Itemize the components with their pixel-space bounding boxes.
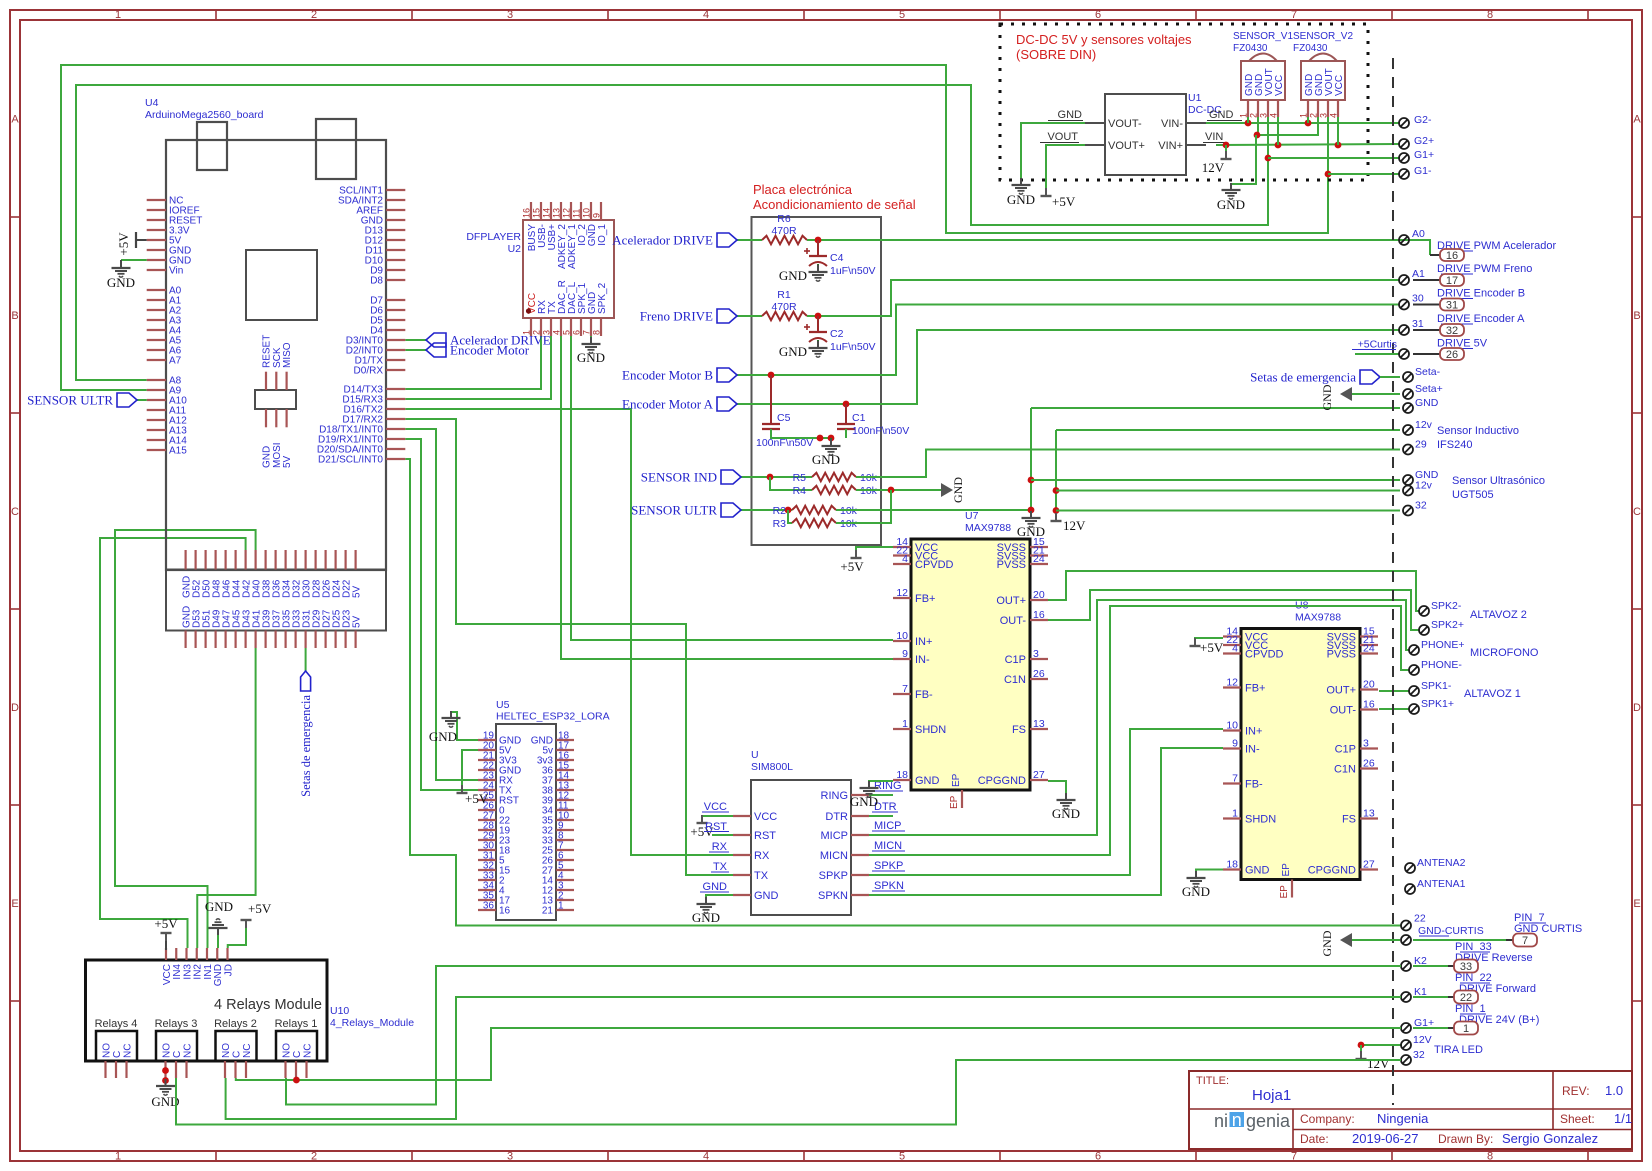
- svg-text:IN+: IN+: [915, 636, 932, 648]
- svg-text:5V: 5V: [282, 455, 293, 468]
- wire V1 VCC pin to VIN rail: [1277, 117, 1279, 145]
- svg-text:R3: R3: [773, 518, 787, 530]
- svg-text:3: 3: [507, 1151, 513, 1163]
- ground arrow at Seta+: [1340, 387, 1352, 401]
- svg-text:PVSS: PVSS: [1327, 649, 1356, 661]
- svg-text:VOUT: VOUT: [1047, 131, 1078, 143]
- wire MICN to pad PHONE-: [869, 606, 1409, 855]
- wire R1 to pad A1: [807, 280, 1400, 316]
- relay block Relays 1: [276, 1031, 317, 1061]
- wire GND rail to pad G2-: [1206, 122, 1400, 124]
- svg-text:Freno DRIVE: Freno DRIVE: [640, 309, 713, 324]
- +5V at U1 VOUT+: [1041, 195, 1052, 197]
- svg-text:RING: RING: [821, 790, 849, 802]
- svg-text:DFPLAYER: DFPLAYER: [466, 231, 521, 243]
- svg-text:U: U: [751, 749, 759, 761]
- svg-text:FB-: FB-: [1245, 779, 1263, 791]
- svg-text:+5V: +5V: [840, 559, 864, 574]
- wire U7 OUT+ to pad SPK2-: [1048, 571, 1419, 611]
- wire D16 to SIM800L RX: [405, 409, 733, 855]
- svg-text:Acondicionamiento de señal: Acondicionamiento de señal: [753, 197, 916, 212]
- svg-text:26: 26: [1033, 668, 1045, 680]
- svg-text:15: 15: [532, 208, 542, 218]
- ground at U5 pin 19: [451, 712, 478, 740]
- wire DAC_R to U7 IN-: [561, 336, 893, 659]
- svg-text:10: 10: [582, 208, 592, 218]
- ground at C5 C1: [830, 438, 832, 444]
- svg-text:1: 1: [1232, 808, 1238, 820]
- label Setas de emergencia right: [1360, 370, 1380, 384]
- pad G2+: [1399, 139, 1409, 149]
- ground at U4 GND pin: [121, 259, 147, 261]
- svg-text:16: 16: [522, 208, 532, 218]
- svg-text:11: 11: [572, 209, 582, 218]
- svg-text:CPGGND: CPGGND: [1308, 865, 1356, 877]
- wire D15 to U2 TX: [405, 336, 551, 399]
- pad SPK2-: [1419, 606, 1429, 616]
- svg-text:4 Relays Module: 4 Relays Module: [214, 997, 322, 1013]
- wire D14 to U2 RX: [405, 336, 541, 389]
- svg-text:SHDN: SHDN: [1245, 814, 1276, 826]
- svg-text:29: 29: [1415, 439, 1427, 451]
- pad PHONE-: [1409, 665, 1419, 675]
- svg-text:MICP: MICP: [821, 830, 849, 842]
- svg-text:12v: 12v: [1415, 419, 1433, 431]
- pad GND setas: [1403, 403, 1413, 413]
- svg-text:C1: C1: [852, 412, 866, 424]
- wire SPKN to U8 IN-: [869, 748, 1223, 895]
- svg-text:MICROFONO: MICROFONO: [1470, 647, 1539, 659]
- svg-text:D0/RX: D0/RX: [354, 366, 384, 377]
- svg-text:4: 4: [703, 9, 709, 21]
- svg-text:CPVDD: CPVDD: [915, 559, 954, 571]
- svg-text:SENSOR IND: SENSOR IND: [641, 470, 717, 485]
- junction R2 R3: [785, 507, 792, 514]
- svg-text:U4: U4: [145, 97, 159, 109]
- wire V1 VOUT tap to pad G1+: [1265, 155, 1272, 162]
- svg-text:SENSOR ULTR: SENSOR ULTR: [27, 393, 113, 408]
- svg-text:ANTENA1: ANTENA1: [1417, 878, 1466, 890]
- svg-text:A1: A1: [1412, 268, 1425, 280]
- svg-text:R1: R1: [777, 289, 791, 301]
- labels Acelerador DRIVE / Encoder Motor at D3 D2: [405, 339, 426, 341]
- ground at U8 GND: [1196, 870, 1223, 877]
- svg-text:TITLE:: TITLE:: [1196, 1075, 1229, 1087]
- svg-text:1uF\n50V: 1uF\n50V: [830, 341, 876, 353]
- svg-text:OUT+: OUT+: [996, 595, 1026, 607]
- svg-text:D21/SCL/INT0: D21/SCL/INT0: [318, 455, 383, 466]
- relay block Relays 2: [216, 1031, 257, 1061]
- svg-text:R6: R6: [777, 213, 791, 225]
- svg-text:Setas de emergencia: Setas de emergencia: [299, 695, 313, 797]
- svg-text:GND: GND: [1320, 930, 1334, 956]
- wire VIN rail to pad G2+: [1216, 144, 1400, 145]
- svg-text:+5V: +5V: [154, 916, 178, 931]
- svg-text:RX: RX: [754, 850, 770, 862]
- wire U8 OUT+ to pad SPK1-: [1379, 690, 1409, 692]
- svg-text:EP: EP: [1279, 885, 1290, 899]
- svg-text:3: 3: [1033, 648, 1039, 660]
- svg-text:24: 24: [1363, 643, 1375, 655]
- svg-text:EP: EP: [1281, 863, 1292, 877]
- svg-text:24: 24: [1033, 553, 1045, 565]
- svg-text:1/1: 1/1: [1614, 1111, 1632, 1126]
- svg-text:6: 6: [1095, 1151, 1101, 1163]
- EP pad of U7: [961, 790, 963, 808]
- wire Relays1 NO to pad K2: [286, 966, 1401, 1105]
- svg-text:3: 3: [1363, 738, 1369, 750]
- svg-text:14: 14: [542, 208, 552, 218]
- svg-text:MISO: MISO: [282, 342, 293, 368]
- svg-text:5V: 5V: [351, 585, 362, 598]
- svg-text:GND: GND: [1245, 865, 1270, 877]
- wire C5 C1 to ground: [771, 429, 831, 438]
- svg-text:4: 4: [902, 553, 908, 565]
- wire D19 to U5 TX: [405, 439, 478, 790]
- svg-text:7: 7: [1291, 9, 1297, 21]
- pad 32 sensor ultrasonico: [1403, 506, 1413, 516]
- svg-text:26: 26: [1363, 758, 1375, 770]
- label Encoder Motor B: [737, 374, 771, 376]
- wire V1 GND pin to GND rail: [1247, 117, 1249, 123]
- svg-text:Drawn By:: Drawn By:: [1438, 1132, 1493, 1146]
- svg-text:2: 2: [532, 330, 542, 335]
- svg-text:Sensor Ultrasónico: Sensor Ultrasónico: [1452, 475, 1545, 487]
- svg-text:GND: GND: [1007, 192, 1035, 207]
- svg-text:FB-: FB-: [915, 689, 933, 701]
- svg-text:VCC: VCC: [754, 811, 777, 823]
- wire MICP to pad PHONE+: [869, 600, 1409, 835]
- svg-text:10: 10: [1226, 720, 1238, 732]
- svg-text:GND: GND: [1217, 197, 1245, 212]
- svg-text:VCC: VCC: [1334, 75, 1345, 96]
- pad 29: [1403, 445, 1413, 455]
- wire R4 to ground arrow: [856, 489, 941, 491]
- svg-text:VOUT+: VOUT+: [1108, 140, 1145, 152]
- pad GND sensor ultrasonico: [1403, 475, 1413, 485]
- svg-text:G1+: G1+: [1414, 149, 1434, 161]
- svg-text:Relays 2: Relays 2: [214, 1018, 257, 1030]
- svg-text:Relays 1: Relays 1: [275, 1018, 318, 1030]
- svg-text:U10: U10: [330, 1005, 349, 1017]
- pad +5Curtis DRIVE 5V: [1355, 353, 1400, 355]
- svg-text:2: 2: [311, 9, 317, 21]
- svg-text:IN-: IN-: [915, 654, 930, 666]
- svg-text:IN-: IN-: [1245, 744, 1260, 756]
- svg-text:UGT505: UGT505: [1452, 489, 1494, 501]
- svg-text:SHDN: SHDN: [915, 724, 946, 736]
- ground at C2: [817, 340, 819, 348]
- svg-text:SPKP: SPKP: [874, 860, 903, 872]
- wire R6 to pad A0: [807, 239, 1400, 241]
- wire Relays2 C and Relays1 C to pad G1+: [236, 1028, 1401, 1080]
- svg-text:6: 6: [1095, 9, 1101, 21]
- svg-text:GND: GND: [577, 350, 605, 365]
- svg-text:C: C: [112, 1051, 123, 1058]
- svg-text:GND-CURTIS: GND-CURTIS: [1418, 925, 1484, 937]
- svg-text:5V: 5V: [351, 615, 362, 628]
- wire R5 to pad 29: [856, 450, 1400, 478]
- svg-text:31: 31: [1446, 300, 1458, 312]
- svg-text:GND: GND: [779, 268, 807, 283]
- svg-text:C1N: C1N: [1334, 764, 1356, 776]
- svg-text:17: 17: [1446, 275, 1458, 287]
- svg-text:Encoder Motor A: Encoder Motor A: [622, 397, 714, 412]
- dotted region DC-DC 5V y sensores voltajes: [1000, 24, 1368, 180]
- svg-text:GND: GND: [915, 775, 940, 787]
- svg-text:U7: U7: [965, 510, 979, 522]
- svg-text:GND: GND: [1209, 109, 1234, 121]
- svg-text:VCC: VCC: [1274, 75, 1285, 96]
- pad G2-: [1399, 118, 1409, 128]
- svg-text:Encoder Motor B: Encoder Motor B: [622, 368, 713, 383]
- svg-text:1: 1: [115, 9, 121, 21]
- svg-text:B: B: [11, 310, 18, 322]
- svg-text:U2: U2: [508, 243, 522, 255]
- junction R5 R4: [767, 474, 774, 481]
- wire R3 to R4: [836, 490, 891, 523]
- svg-text:SPK1-: SPK1-: [1421, 680, 1452, 692]
- svg-text:NC: NC: [242, 1044, 253, 1058]
- svg-text:36: 36: [483, 901, 495, 912]
- svg-text:ni: ni: [1214, 1111, 1228, 1131]
- svg-text:1: 1: [115, 1151, 121, 1163]
- svg-text:3: 3: [1319, 113, 1329, 118]
- svg-text:GND: GND: [754, 890, 779, 902]
- svg-text:+5V: +5V: [465, 791, 489, 806]
- svg-text:C: C: [1633, 506, 1641, 518]
- svg-text:+5V: +5V: [116, 232, 131, 256]
- svg-text:SPK_2: SPK_2: [597, 282, 608, 314]
- svg-text:4: 4: [703, 1151, 709, 1163]
- capacitor C4 1uF 50V: [817, 240, 819, 248]
- svg-text:GND: GND: [951, 477, 965, 503]
- svg-text:OUT+: OUT+: [1326, 685, 1356, 697]
- svg-text:SPKN: SPKN: [874, 880, 904, 892]
- ICSP header of U4: [255, 390, 296, 409]
- svg-text:C1N: C1N: [1004, 674, 1026, 686]
- capacitor C2 1uF 50V: [817, 316, 819, 324]
- wire vertical 12V column: [1055, 430, 1057, 520]
- ground at Relays 3 NO: [165, 1078, 167, 1084]
- svg-text:C2: C2: [830, 328, 844, 340]
- svg-text:Seta-: Seta-: [1415, 366, 1441, 378]
- wire Relays3 C to pad 32 TIRA LED: [176, 1060, 1401, 1125]
- svg-text:Placa electrónica: Placa electrónica: [753, 182, 853, 197]
- pad 12V TIRA LED: [1361, 1044, 1402, 1046]
- svg-text:GND: GND: [703, 881, 728, 893]
- svg-text:32: 32: [1415, 500, 1427, 512]
- wire V2 VCC pin to VIN rail: [1337, 117, 1339, 145]
- svg-text:C: C: [292, 1051, 303, 1058]
- svg-text:R5: R5: [793, 472, 807, 484]
- svg-text:8: 8: [1487, 9, 1493, 21]
- svg-text:NC: NC: [122, 1044, 133, 1058]
- svg-text:+5Curtis: +5Curtis: [1358, 339, 1397, 351]
- svg-text:CPVDD: CPVDD: [1245, 649, 1284, 661]
- svg-text:3: 3: [1259, 113, 1269, 118]
- ground at U1 VOUT-: [1020, 178, 1022, 185]
- svg-text:20: 20: [1363, 679, 1375, 691]
- ground at U SIM800L GND: [706, 895, 733, 903]
- svg-text:4: 4: [552, 330, 562, 335]
- wire to pad 12v sensor ultrasonico: [1056, 490, 1400, 492]
- svg-text:K2: K2: [1414, 955, 1427, 967]
- junction at R6 C4: [815, 237, 822, 244]
- svg-text:IN+: IN+: [1245, 726, 1262, 738]
- svg-text:FZ0430: FZ0430: [1233, 43, 1268, 54]
- wire D42 to relay IN3: [100, 538, 246, 948]
- svg-text:8: 8: [1487, 1151, 1493, 1163]
- relay block Relays 4: [96, 1031, 137, 1061]
- junction at C1: [843, 401, 850, 408]
- pad 32 TIRA LED: [1401, 1055, 1411, 1065]
- net label RING: [869, 794, 893, 796]
- svg-text:GND: GND: [779, 344, 807, 359]
- svg-text:12V: 12V: [1367, 1056, 1390, 1071]
- svg-text:SPK1+: SPK1+: [1421, 698, 1454, 710]
- svg-text:G1-: G1-: [1414, 165, 1432, 177]
- svg-text:GND: GND: [1052, 806, 1080, 821]
- svg-text:JD: JD: [223, 964, 234, 976]
- svg-text:16: 16: [1033, 609, 1045, 621]
- svg-text:4_Relays_Module: 4_Relays_Module: [330, 1017, 414, 1029]
- svg-text:PHONE+: PHONE+: [1421, 639, 1464, 651]
- wire D21 to pad 22: [405, 459, 1401, 926]
- svg-text:27: 27: [1033, 769, 1045, 781]
- +5V at U5 pin 20: [462, 750, 478, 792]
- svg-text:K1: K1: [1414, 986, 1427, 998]
- svg-text:G2-: G2-: [1414, 114, 1432, 126]
- svg-text:R4: R4: [793, 485, 807, 497]
- svg-text:30: 30: [1412, 293, 1424, 305]
- svg-text:12: 12: [1226, 677, 1238, 689]
- svg-text:5: 5: [562, 330, 572, 335]
- svg-text:NO: NO: [161, 1043, 172, 1058]
- svg-text:ArduinoMega2560_board: ArduinoMega2560_board: [145, 109, 264, 121]
- svg-text:26: 26: [1446, 349, 1458, 361]
- svg-text:C: C: [231, 1051, 242, 1058]
- svg-text:31: 31: [1412, 318, 1424, 330]
- svg-text:Relays 4: Relays 4: [95, 1018, 138, 1030]
- svg-text:Sheet:: Sheet:: [1560, 1112, 1595, 1126]
- svg-text:7: 7: [582, 330, 592, 335]
- svg-text:VIN-: VIN-: [1161, 118, 1183, 130]
- svg-text:FS: FS: [1012, 724, 1026, 736]
- svg-text:PHONE-: PHONE-: [1421, 659, 1462, 671]
- svg-text:6: 6: [572, 330, 582, 335]
- svg-text:GND: GND: [850, 794, 878, 809]
- svg-text:5: 5: [899, 1151, 905, 1163]
- svg-text:Sergio Gonzalez: Sergio Gonzalez: [1502, 1131, 1598, 1146]
- svg-text:1uF\n50V: 1uF\n50V: [830, 265, 876, 277]
- ground arrow at GND-CURTIS: [1340, 933, 1352, 947]
- svg-text:EP: EP: [949, 795, 960, 809]
- svg-text:PVSS: PVSS: [997, 559, 1026, 571]
- svg-text:12V: 12V: [1063, 518, 1086, 533]
- wire vertical GND column: [1030, 408, 1032, 516]
- svg-text:SPKP: SPKP: [819, 870, 848, 882]
- svg-text:SPK2-: SPK2-: [1431, 600, 1462, 612]
- dashed separator line: [1392, 58, 1394, 1105]
- svg-text:VCC: VCC: [704, 801, 727, 813]
- relay block Relays 3: [156, 1031, 197, 1061]
- wire A9 to SENSOR_V1 VOUT: [61, 65, 1328, 390]
- svg-text:13: 13: [552, 208, 562, 218]
- svg-text:DTR: DTR: [825, 811, 848, 823]
- wire D40 to relay IN1: [115, 530, 256, 948]
- svg-text:27: 27: [1363, 859, 1375, 871]
- net label RST: [712, 834, 733, 836]
- EP pad of U8: [1291, 880, 1293, 898]
- svg-text:7: 7: [902, 683, 908, 695]
- svg-text:GND: GND: [205, 899, 233, 914]
- svg-text:21: 21: [542, 906, 554, 917]
- wire to pad GND setas: [1031, 407, 1400, 409]
- svg-text:VIN: VIN: [1205, 131, 1223, 143]
- wire D18 to U5 RX: [405, 429, 478, 780]
- bottom header strip of U4: [166, 570, 386, 631]
- svg-text:FZ0430: FZ0430: [1293, 43, 1328, 54]
- wire U7 OUT- to pad SPK2+: [1048, 590, 1419, 630]
- +5V at U4 5V pin: [136, 239, 147, 241]
- +5V at relay JD: [228, 921, 246, 948]
- pad G1-: [1399, 169, 1409, 179]
- svg-text:GND: GND: [1415, 397, 1439, 409]
- pad G1+: [1399, 153, 1409, 163]
- svg-text:22: 22: [1414, 913, 1426, 925]
- svg-text:G1+: G1+: [1414, 1017, 1434, 1029]
- wire V2 VOUT tap to pad G1-: [1325, 171, 1332, 178]
- svg-text:GND: GND: [1320, 384, 1334, 410]
- svg-text:8: 8: [592, 330, 602, 335]
- svg-text:MICP: MICP: [874, 820, 902, 832]
- svg-text:U5: U5: [496, 699, 510, 711]
- svg-text:13: 13: [1363, 808, 1375, 820]
- svg-text:1: 1: [558, 901, 564, 912]
- svg-text:SENSOR_V2: SENSOR_V2: [1293, 31, 1353, 42]
- label SENSOR IND: [741, 476, 812, 478]
- +5V at U SIM800L VCC: [702, 816, 733, 822]
- svg-text:A0: A0: [1412, 228, 1425, 240]
- label SENSOR ULTR placa: [741, 509, 792, 511]
- wire Encoder Motor A to pad 31: [771, 330, 1400, 404]
- ground at column: [1030, 511, 1032, 518]
- wire U8 OUT- to pad SPK1+: [1379, 708, 1409, 710]
- svg-text:TIRA LED: TIRA LED: [1434, 1044, 1483, 1056]
- label Setas de emergencia vertical: [301, 671, 311, 691]
- svg-text:32: 32: [1413, 1049, 1425, 1061]
- ground at sensor rail: [1231, 135, 1256, 188]
- ground at U7 GND: [869, 781, 893, 786]
- svg-text:NO: NO: [221, 1043, 232, 1058]
- label Acelerador DRIVE: [737, 239, 762, 241]
- wire V2 GND pin to GND rail: [1307, 117, 1309, 123]
- svg-text:A: A: [11, 114, 19, 126]
- svg-text:1: 1: [902, 718, 908, 730]
- svg-text:12V: 12V: [1413, 1034, 1432, 1046]
- svg-text:TX: TX: [754, 870, 769, 882]
- svg-text:MICN: MICN: [820, 850, 848, 862]
- power 12V at VIN: [1225, 145, 1227, 158]
- junction at R1 C2: [815, 313, 822, 320]
- svg-text:NC: NC: [182, 1044, 193, 1058]
- pad ANTENA1: [1405, 884, 1415, 894]
- svg-text:Seta+: Seta+: [1415, 383, 1443, 395]
- svg-text:NO: NO: [281, 1043, 292, 1058]
- svg-text:OUT-: OUT-: [1000, 615, 1027, 627]
- label Freno DRIVE: [737, 315, 762, 317]
